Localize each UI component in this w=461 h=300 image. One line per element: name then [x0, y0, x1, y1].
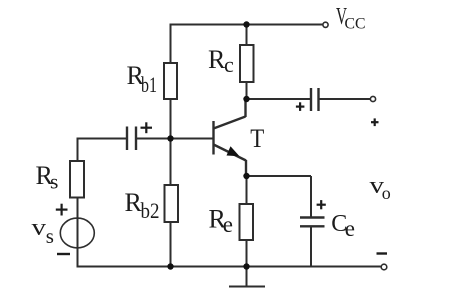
plus sign at source vs [56, 204, 68, 216]
wire Rc bottom to collector node [246, 82, 248, 99]
svg-text:c: c [224, 52, 234, 77]
wire Rb2 bottom to bottom rail [170, 222, 172, 267]
svg-text:e: e [223, 212, 233, 237]
terminal output minus [381, 264, 387, 270]
transistor T [214, 99, 247, 176]
capacitor Ce plates [300, 218, 325, 227]
wire Ce branch down to top plate [310, 176, 312, 217]
wire from left branch corner to input cap [77, 138, 128, 140]
minus sign at source vs [57, 253, 70, 255]
node collector junction [243, 96, 249, 102]
wire bottom rail [77, 266, 382, 268]
minus sign at output bottom terminal [377, 252, 388, 254]
svg-text:v: v [32, 215, 47, 241]
resistor Rb2 [165, 185, 179, 222]
node Rb2 bottom on rail [167, 263, 173, 269]
ground [229, 267, 265, 287]
capacitor C1 input plates [127, 127, 136, 151]
terminal output plus [370, 96, 375, 101]
wire Ce bottom plate to bottom rail [310, 227, 312, 267]
wire base horizontal from input cap to transistor [136, 138, 213, 140]
resistor Rb1 [164, 63, 177, 99]
svg-text:e: e [345, 216, 355, 241]
terminal Vcc [323, 22, 328, 27]
wire Rb1 bottom through base node to Rb2 top [170, 99, 172, 185]
plus sign at input capacitor [141, 122, 153, 133]
resistor Re [240, 204, 254, 240]
svg-text:s: s [50, 169, 58, 193]
svg-text:b2: b2 [141, 198, 160, 223]
wire left drop from top rail to Rb1 [170, 25, 172, 64]
wire left branch vertical through Rs and source vs [77, 139, 79, 267]
node emitter junction [243, 173, 249, 179]
transistor emitter arrow [227, 146, 240, 156]
svg-text:s: s [46, 224, 54, 248]
svg-text:o: o [382, 183, 391, 203]
node junction top rail / Rc [243, 21, 249, 27]
node ground junction on rail [243, 263, 249, 269]
wire emitter node to Ce branch [247, 175, 312, 177]
source vs circle [60, 218, 94, 248]
wire emitter node to Re top [246, 176, 248, 204]
wire output capacitor to output terminal [319, 98, 372, 100]
svg-text:CC: CC [345, 16, 366, 33]
node base junction [167, 135, 173, 141]
resistor Rs [70, 161, 84, 198]
capacitor C2 output plates [311, 88, 319, 111]
wire collector node to output capacitor [247, 98, 312, 100]
resistor Rc [240, 45, 254, 82]
plus sign at Ce [317, 200, 326, 209]
plus sign at output terminal [371, 118, 379, 126]
wire Re bottom to bottom rail [246, 240, 248, 267]
svg-text:T: T [250, 124, 264, 153]
svg-text:b1: b1 [141, 72, 157, 97]
wire Rc top from top rail junction [246, 25, 248, 46]
plus sign at output capacitor [296, 102, 305, 111]
wire top rail [170, 24, 323, 26]
